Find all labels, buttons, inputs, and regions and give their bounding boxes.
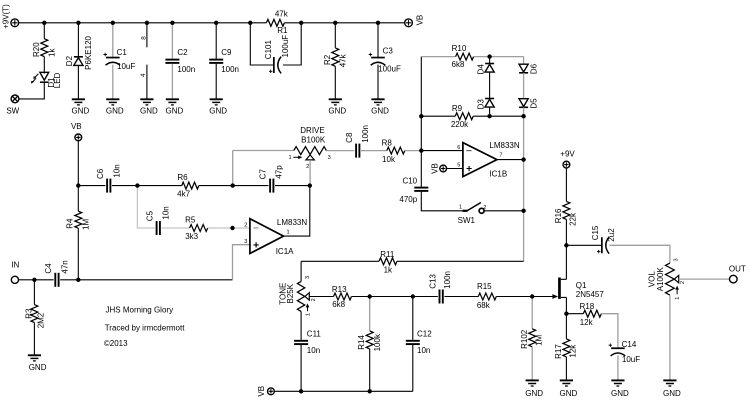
wire D4 top stub (489, 57, 491, 64)
svg-text:VB: VB (257, 386, 266, 397)
wire fb column to C10 (420, 151, 422, 188)
capacitor C8 100n (355, 144, 360, 158)
capacitor C13 100n (439, 290, 444, 304)
wire R15 to R102 (496, 296, 532, 298)
svg-text:R4: R4 (65, 218, 74, 229)
VOL wiper (674, 275, 678, 282)
ground VOL (663, 380, 676, 386)
svg-text:100k: 100k (373, 333, 382, 351)
wire TONE wiper to R13 (309, 296, 333, 298)
svg-text:R6: R6 (177, 173, 188, 182)
diode D4 (485, 64, 494, 73)
potentiometer TONE B25K (297, 281, 304, 311)
wire R6 left (137, 185, 181, 187)
resistor R8 (387, 147, 405, 154)
diode D3 (485, 99, 494, 108)
wire VB stage1 down (77, 141, 79, 186)
ground R2 (329, 99, 342, 105)
svg-text:4k7: 4k7 (177, 190, 190, 199)
wire C15 right (610, 245, 670, 263)
junction C7/wiper/out (308, 183, 312, 187)
DRIVE rotation arrow (293, 156, 302, 160)
wire D6-D5 link (523, 73, 525, 99)
junction R16/drain/C15 (564, 243, 568, 247)
capacitor C10 470p (414, 187, 428, 192)
svg-text:100n: 100n (443, 271, 452, 289)
resistor R14 (366, 331, 373, 349)
svg-text:7: 7 (499, 153, 502, 159)
terminal VB pin5 circle (440, 165, 447, 172)
svg-text:GND: GND (106, 106, 124, 115)
wire D3 bottom to D5 bottom (490, 115, 524, 117)
wire R102 top (531, 297, 533, 329)
terminal VB top-right circle (405, 19, 413, 27)
wire IC1A pin3 riser (233, 245, 250, 280)
svg-text:LM833N: LM833N (277, 218, 307, 227)
svg-text:2: 2 (483, 205, 486, 211)
wire D3 bottom stub (489, 107, 491, 116)
junction rail F (214, 21, 218, 25)
junction SW1/column (521, 209, 525, 213)
capacitor C6 10n (106, 179, 111, 193)
wire R9 right (473, 115, 489, 117)
wire VB to pin5 (447, 168, 463, 170)
wire C9 bottom (215, 64, 217, 99)
wire IC1B output (497, 159, 524, 161)
resistor R3 (31, 305, 38, 323)
wire DRIVE to C8 (326, 150, 354, 152)
svg-text:R9: R9 (452, 104, 463, 113)
wire R2 bottom (334, 66, 336, 99)
svg-text:GND: GND (209, 106, 227, 115)
wire C6out down to C5 (137, 186, 155, 228)
svg-text:DRIVE: DRIVE (300, 126, 324, 135)
junction rail I (333, 21, 337, 25)
svg-text:+9V: +9V (560, 149, 575, 158)
svg-text:2: 2 (306, 164, 309, 170)
svg-text:D6: D6 (529, 63, 538, 74)
svg-text:1: 1 (459, 205, 462, 211)
resistor R16 (563, 201, 570, 219)
svg-text:VB: VB (430, 163, 439, 174)
terminal SW (11, 95, 19, 103)
wire R17 bottom (565, 357, 567, 380)
ground C14 (611, 380, 624, 386)
wire C12 bottom (412, 345, 414, 391)
svg-text:5: 5 (457, 163, 460, 169)
capacitor C7 47p (269, 179, 274, 193)
svg-text:R15: R15 (477, 282, 492, 291)
wire C8 to R8 (361, 150, 387, 152)
ground R17 (560, 380, 573, 386)
svg-text:GND: GND (29, 363, 47, 372)
wire C3 top (377, 23, 379, 57)
svg-text:2: 2 (311, 298, 317, 301)
junction rail B (76, 21, 80, 25)
svg-text:GND: GND (328, 106, 346, 115)
wire D6 top stub (523, 57, 525, 65)
svg-text:R14: R14 (357, 335, 366, 350)
svg-text:4: 4 (140, 73, 147, 77)
svg-text:B25K: B25K (286, 283, 295, 303)
svg-text:+9V(T): +9V(T) (2, 4, 11, 29)
wire fb column top (420, 57, 422, 117)
resistor R10 (456, 53, 474, 60)
svg-text:8: 8 (140, 36, 147, 40)
svg-text:100uF: 100uF (378, 65, 401, 74)
junction rail C (111, 21, 115, 25)
svg-text:D2: D2 (65, 55, 74, 66)
svg-text:R18: R18 (580, 302, 595, 311)
wire C15 left (566, 244, 601, 246)
wire R3 bottom (33, 323, 35, 355)
svg-text:GND: GND (140, 106, 158, 115)
terminal VB stage1 circle (75, 134, 82, 141)
terminal +9V(T) circle (11, 19, 19, 27)
svg-text:2u2: 2u2 (607, 228, 616, 242)
wire R14 to C12 (370, 296, 413, 298)
wire SW1 to column (484, 210, 523, 212)
ground D2 (72, 99, 85, 105)
wire C101 left branch (250, 23, 273, 65)
svg-text:R20: R20 (32, 42, 41, 57)
junction C4/R4 (76, 278, 80, 282)
svg-text:P6KE120: P6KE120 (84, 35, 93, 69)
svg-text:C101: C101 (264, 40, 273, 60)
wire R14 top (369, 297, 371, 331)
svg-text:R11: R11 (380, 250, 395, 259)
svg-text:IN: IN (11, 260, 19, 269)
wire Q1 drain up (565, 245, 567, 279)
svg-text:10n: 10n (417, 346, 430, 355)
wire R13 to R14 (352, 296, 370, 298)
svg-text:22k: 22k (569, 212, 578, 226)
junction VB/R4/C6 (76, 183, 80, 187)
junction rail A (42, 21, 46, 25)
svg-text:C14: C14 (622, 340, 637, 349)
svg-text:R102: R102 (520, 329, 529, 349)
ground C1 (106, 99, 119, 105)
svg-text:SW: SW (6, 106, 19, 115)
svg-text:100uF: 100uF (281, 35, 290, 58)
wire C13 to R15 (444, 296, 478, 298)
svg-text:1k: 1k (384, 265, 393, 274)
svg-text:1: 1 (306, 313, 312, 316)
svg-text:GND: GND (371, 106, 389, 115)
wire out column to SW1 (523, 160, 525, 211)
terminal +9V circle (563, 161, 570, 168)
wire D4-D3 link (489, 72, 491, 98)
wire R3 to C4 (34, 279, 53, 281)
wire IC pin 8 stub (146, 23, 148, 48)
svg-text:100n: 100n (221, 65, 239, 74)
capacitor C11 10n (294, 340, 308, 345)
wire R102 bottom (531, 347, 533, 380)
wire C7 left (233, 185, 269, 187)
ground C9 (210, 99, 223, 105)
svg-text:D5: D5 (529, 98, 538, 109)
svg-text:R8: R8 (382, 138, 393, 147)
ground C2 (166, 99, 179, 105)
resistor R13 (334, 293, 352, 300)
wire C6 left (78, 185, 105, 187)
diode D6 (519, 64, 528, 73)
svg-text:VB: VB (71, 122, 82, 131)
svg-text:10uF: 10uF (622, 355, 640, 364)
junction C7 left (231, 183, 235, 187)
svg-text:3: 3 (674, 258, 680, 261)
svg-text:C5: C5 (145, 210, 154, 221)
resistor R17 (563, 339, 570, 357)
VOL rotation arrow (675, 286, 679, 295)
junction R102/gate (530, 294, 534, 298)
wire VOL wiper to OUT (679, 278, 730, 280)
resistor R4 (75, 211, 82, 228)
wire C5 to R5 (162, 227, 190, 229)
svg-text:JHS Morning Glory: JHS Morning Glory (106, 306, 174, 315)
terminal VB tone circle (268, 388, 275, 395)
svg-text:R3: R3 (24, 308, 33, 319)
svg-text:Traced by irmcdermott: Traced by irmcdermott (105, 324, 186, 333)
wire C1 top (112, 23, 114, 57)
svg-text:R1: R1 (277, 26, 288, 35)
capacitor C14 10uF (609, 344, 626, 356)
capacitor C101 100uF (269, 57, 281, 74)
svg-text:10k: 10k (382, 155, 396, 164)
capacitor C12 10n (406, 340, 420, 345)
TONE rotation arrow (306, 303, 310, 311)
wire C11 bottom (300, 345, 302, 391)
wire +9V rail right (VB net) (301, 22, 404, 24)
wire feedback top (233, 150, 294, 152)
junction IC1A pin2 (230, 226, 234, 230)
svg-text:100n: 100n (361, 125, 370, 143)
wire IC pin 4 stub (146, 65, 148, 99)
terminal OUT circle (730, 275, 738, 283)
svg-text:C9: C9 (221, 48, 232, 57)
diode D2 P6KE120 (74, 57, 83, 66)
svg-text:Q1: Q1 (576, 281, 587, 290)
svg-text:47k: 47k (275, 9, 289, 18)
wire R3 top (33, 280, 35, 305)
junction rail D (145, 21, 149, 25)
wire pin6 stub (421, 150, 463, 152)
potentiometer VOL A100K (666, 263, 675, 295)
svg-text:©2013: ©2013 (104, 339, 128, 348)
svg-text:C3: C3 (383, 46, 394, 55)
junction rail G (248, 21, 252, 25)
svg-text:OUT: OUT (729, 264, 746, 273)
svg-text:47k: 47k (338, 53, 347, 67)
wire pin2 stub (233, 227, 250, 229)
terminal IN circle (11, 276, 18, 283)
wire gate (532, 296, 553, 298)
junction IN/R3 (32, 278, 36, 282)
svg-text:1: 1 (286, 229, 289, 235)
wire C14 bottom (617, 355, 619, 380)
svg-text:IC1B: IC1B (489, 170, 507, 179)
wire C4 to R4 node (60, 279, 78, 281)
svg-text:6: 6 (457, 145, 460, 151)
svg-text:C8: C8 (345, 132, 354, 143)
svg-text:LED: LED (53, 72, 62, 88)
wire D2 top (77, 23, 79, 57)
wire input node to IC1A pin3 (78, 279, 232, 281)
svg-text:GND: GND (72, 106, 90, 115)
svg-text:B100K: B100K (301, 135, 326, 144)
DRIVE wiper (306, 155, 314, 160)
svg-text:1: 1 (288, 155, 291, 161)
svg-text:12k: 12k (569, 344, 578, 358)
wire IN to R3 (19, 279, 35, 281)
capacitor C3 100uF (369, 53, 386, 65)
transistor Q1 2N5457 (552, 278, 566, 299)
resistor R6 (182, 182, 199, 189)
ground pin4 (140, 99, 153, 105)
wire VOL bottom (669, 295, 671, 380)
capacitor C1 10uF (104, 53, 121, 65)
junction C12 top (411, 294, 415, 298)
wire R1 right (284, 22, 301, 24)
junction R9/D3 (487, 114, 491, 118)
ground R102 (526, 380, 539, 386)
svg-text:2M2: 2M2 (36, 312, 45, 328)
svg-text:C12: C12 (417, 330, 432, 339)
svg-text:R5: R5 (185, 215, 196, 224)
svg-text:C2: C2 (177, 48, 188, 57)
svg-text:C1: C1 (117, 48, 128, 57)
wire DRIVE wiper down (309, 160, 311, 186)
wire feedback riser (232, 151, 234, 186)
svg-text:R13: R13 (332, 285, 347, 294)
wire D5 bottom stub (523, 107, 525, 116)
capacitor C2 100n (165, 59, 179, 64)
wire R11 right (397, 260, 524, 262)
svg-text:VB: VB (415, 15, 424, 26)
junction R8/pin6 (419, 148, 423, 152)
svg-text:2: 2 (244, 222, 247, 228)
wire +9V to R16 (565, 168, 567, 201)
wire R20 to D1 (43, 57, 45, 74)
op-amp IC1B LM833N (463, 143, 497, 177)
svg-text:1k: 1k (47, 48, 56, 57)
svg-text:47n: 47n (60, 260, 69, 273)
wire fb column mid (420, 116, 422, 150)
wire R4 bottom (77, 228, 79, 280)
wire C1 bottom (112, 65, 114, 99)
resistor R5 (190, 225, 208, 232)
resistor R1 (266, 19, 284, 26)
wire TONE pin1 down (300, 311, 302, 339)
svg-text:D4: D4 (477, 64, 486, 75)
junction R13/R14 (368, 294, 372, 298)
svg-text:C6: C6 (96, 168, 105, 179)
wire source to R18 (566, 313, 583, 315)
svg-text:C10: C10 (402, 177, 417, 186)
svg-text:1: 1 (675, 297, 681, 300)
switch SW1 (462, 203, 484, 214)
svg-text:R17: R17 (554, 344, 563, 359)
svg-text:470p: 470p (399, 195, 417, 204)
svg-text:2: 2 (680, 281, 686, 284)
junction rail H (299, 21, 303, 25)
wire R11 left (301, 260, 379, 262)
TONE wiper (305, 293, 309, 300)
wire R10 left (421, 56, 455, 58)
svg-text:LM833N: LM833N (489, 141, 519, 150)
svg-text:10n: 10n (307, 346, 320, 355)
wire C6 right (112, 185, 137, 187)
junction IC1B out (521, 157, 525, 161)
svg-text:A100K: A100K (656, 267, 665, 292)
svg-text:1M: 1M (534, 334, 543, 345)
svg-text:220k: 220k (451, 120, 469, 129)
svg-text:GND: GND (525, 389, 543, 398)
svg-text:10uF: 10uF (117, 62, 135, 71)
wire D4 top to D6 top (490, 56, 524, 58)
wire out column to R11 (523, 211, 525, 261)
wire R4 top (77, 186, 79, 212)
junction R14/VB rail (368, 389, 372, 393)
svg-text:C11: C11 (307, 330, 322, 339)
resistor R2 (332, 48, 339, 66)
diode D5 (519, 99, 528, 108)
svg-text:3: 3 (244, 239, 247, 245)
svg-text:R2: R2 (323, 54, 332, 65)
svg-text:3k3: 3k3 (185, 232, 198, 241)
junction D5 bottom (521, 114, 525, 118)
svg-text:1M: 1M (82, 219, 91, 230)
junction rail J (376, 21, 380, 25)
wire R18 to C14 (601, 314, 618, 348)
wire C12 to C13 (413, 296, 438, 298)
junction C6/R6/C5 (135, 183, 139, 187)
svg-text:6k8: 6k8 (452, 60, 465, 69)
capacitor C9 100n (209, 59, 223, 64)
svg-text:68k: 68k (477, 301, 491, 310)
wire C9 top (215, 23, 217, 59)
resistor R18 (583, 310, 601, 317)
wire IC1A output stub (284, 186, 310, 237)
wire +9V rail left (19, 22, 251, 24)
wire VB tone rail (274, 390, 413, 392)
resistor R102 (529, 329, 536, 347)
svg-text:C7: C7 (258, 169, 267, 180)
wire R2 top (334, 23, 336, 48)
resistor R9 (455, 113, 473, 120)
LED D1 (31, 72, 49, 83)
svg-text:SW1: SW1 (458, 216, 476, 225)
wire C12 top (412, 297, 414, 340)
svg-text:2N5457: 2N5457 (576, 290, 605, 299)
wire R8 to pin6 node (405, 150, 422, 152)
capacitor C4 47n (54, 273, 59, 287)
svg-text:3: 3 (305, 276, 311, 279)
wire C2 bottom (171, 64, 173, 99)
wire C7 right (275, 185, 310, 187)
wire R9 left (421, 115, 455, 117)
wire C101 right branch (283, 23, 301, 65)
svg-text:6k8: 6k8 (332, 300, 345, 309)
wire D1 to SW (19, 83, 44, 99)
wire D2 bottom (77, 66, 79, 99)
wire R10 right (474, 56, 490, 58)
wire clip column (523, 116, 525, 159)
wire C10 to SW1 (421, 192, 462, 211)
wire Q1 source down (565, 297, 567, 313)
svg-text:R10: R10 (452, 44, 467, 53)
junction R10/D4 (487, 54, 491, 58)
